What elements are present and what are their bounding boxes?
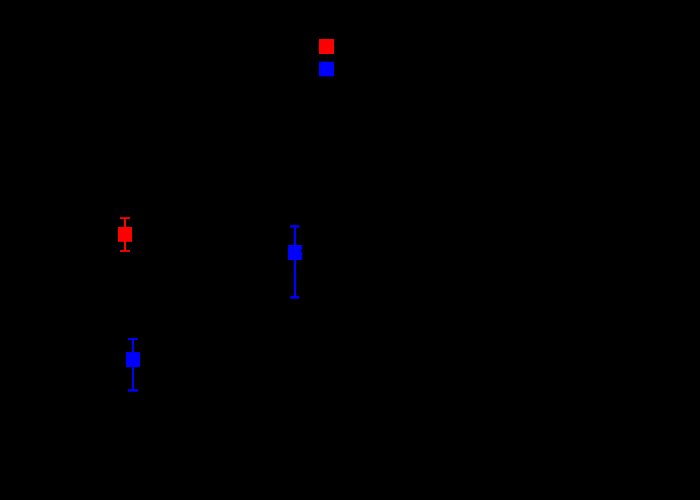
legend marker: blue series [319,62,334,77]
blue data point 2: error bar vertical line [294,225,296,298]
blue data point 2: bottom cap [290,296,299,298]
blue data point 2: small black notch on right edge of marker [301,250,303,252]
blue data point 2: square marker [288,245,302,260]
blue data point 1: square marker [126,352,140,367]
blue data point 2: top cap [290,225,299,227]
blue data point 1: error bar vertical line [132,338,134,391]
red data point 1: bottom cap [120,250,130,252]
blue data point 1: bottom cap [128,389,138,391]
red data point 1: top cap [120,217,130,219]
legend marker: red series [319,39,334,54]
blue data point 1: top cap [128,338,138,340]
red data point 1: error bar vertical line [124,217,126,251]
red data point 1: square marker [118,227,132,242]
